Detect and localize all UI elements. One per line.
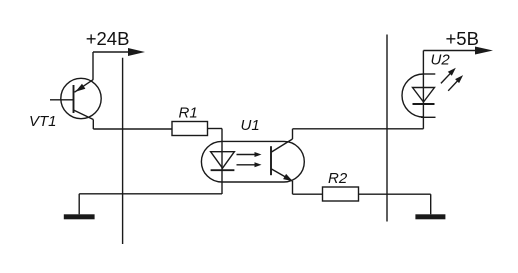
- svg-text:+24В: +24В: [86, 28, 130, 49]
- svg-text:R1: R1: [179, 105, 198, 122]
- svg-text:+5В: +5В: [446, 28, 479, 49]
- svg-text:R2: R2: [328, 170, 348, 187]
- svg-text:U2: U2: [431, 52, 451, 69]
- svg-text:U1: U1: [241, 117, 260, 134]
- svg-text:VT1: VT1: [29, 113, 57, 130]
